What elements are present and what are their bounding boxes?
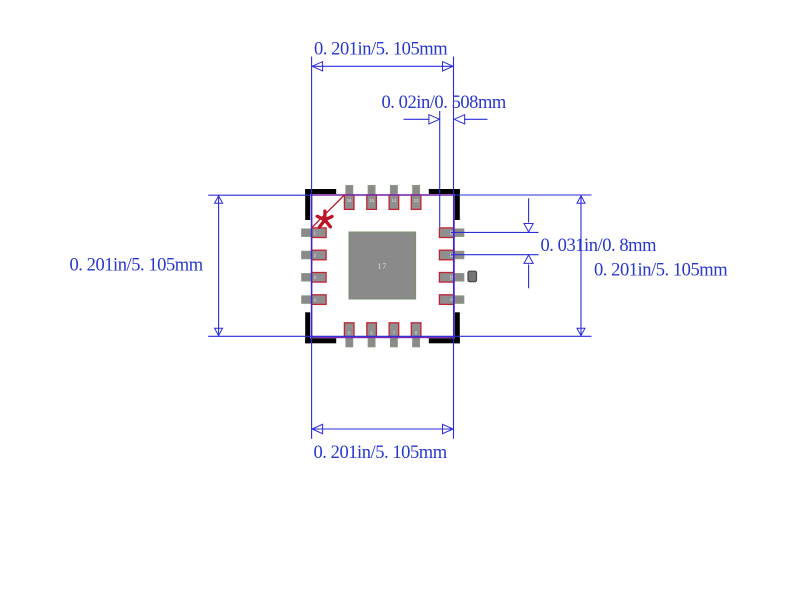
svg-text:0. 201in/5. 105mm: 0. 201in/5. 105mm (314, 443, 448, 463)
svg-text:0. 02in/0. 508mm: 0. 02in/0. 508mm (382, 93, 507, 113)
svg-text:13: 13 (414, 198, 419, 203)
svg-text:15: 15 (369, 198, 374, 203)
svg-text:14: 14 (392, 198, 397, 203)
svg-text:17: 17 (377, 261, 387, 270)
svg-text:0. 201in/5. 105mm: 0. 201in/5. 105mm (70, 256, 204, 276)
svg-text:0. 201in/5. 105mm: 0. 201in/5. 105mm (594, 260, 728, 280)
svg-text:0. 201in/5. 105mm: 0. 201in/5. 105mm (314, 39, 448, 59)
svg-text:0. 031in/0. 8mm: 0. 031in/0. 8mm (541, 236, 658, 256)
svg-text:16: 16 (347, 198, 352, 203)
